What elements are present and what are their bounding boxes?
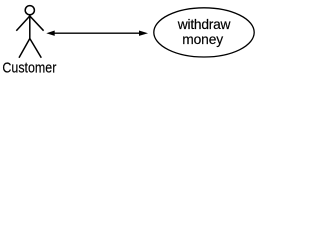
svg-text:withdraw: withdraw: [177, 17, 231, 32]
svg-text:money: money: [182, 32, 223, 47]
svg-text:Customer: Customer: [2, 61, 56, 77]
